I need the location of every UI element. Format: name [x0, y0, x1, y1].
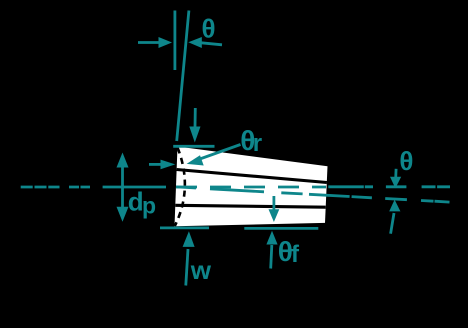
- w arrow: [186, 249, 188, 286]
- svg-text:r: r: [253, 130, 262, 157]
- svg-text:θ: θ: [202, 13, 216, 43]
- small arrow pointing at front face (theta-r): [149, 163, 162, 166]
- theta-f up arrow: [271, 245, 272, 269]
- dashed curved surface (left face arc): [175, 148, 185, 227]
- dp double arrow: [121, 165, 124, 210]
- svg-text:p: p: [142, 192, 156, 218]
- optical axis: dashes right of prism: [328, 185, 450, 188]
- svg-text:θ: θ: [399, 146, 413, 176]
- wedge prism body: [175, 147, 328, 227]
- deviated ray (dashed): [176, 187, 450, 202]
- down arrow inside prism to bottom edge: [272, 196, 275, 211]
- svg-text:w: w: [190, 255, 212, 285]
- deviation angle marker: up arrow: [391, 213, 394, 234]
- down arrow to top edge reference: [194, 108, 197, 127]
- optical axis: dashes inside prism: [176, 186, 326, 189]
- lower internal ray (black): [175, 205, 325, 207]
- optical axis: solid segment through dp arrow: [103, 186, 166, 189]
- right arrow of top wedge angle: [200, 43, 222, 45]
- left arrow of top wedge angle: [138, 41, 160, 44]
- extension line under thin edge (w): [160, 226, 209, 229]
- optical axis: left dash-dot groups: [21, 186, 60, 189]
- wedge-angle tilted face line: [177, 11, 189, 142]
- horizontal reference line at prism top corner: [173, 145, 214, 148]
- theta-r leader arrow: [197, 145, 241, 161]
- extension line under exit area (theta-f): [244, 227, 318, 230]
- deviation angle marker: down arrow: [394, 169, 397, 178]
- wedge-angle reference line (vertical): [173, 11, 176, 71]
- svg-text:f: f: [291, 241, 300, 268]
- upper internal ray (black): [177, 170, 327, 183]
